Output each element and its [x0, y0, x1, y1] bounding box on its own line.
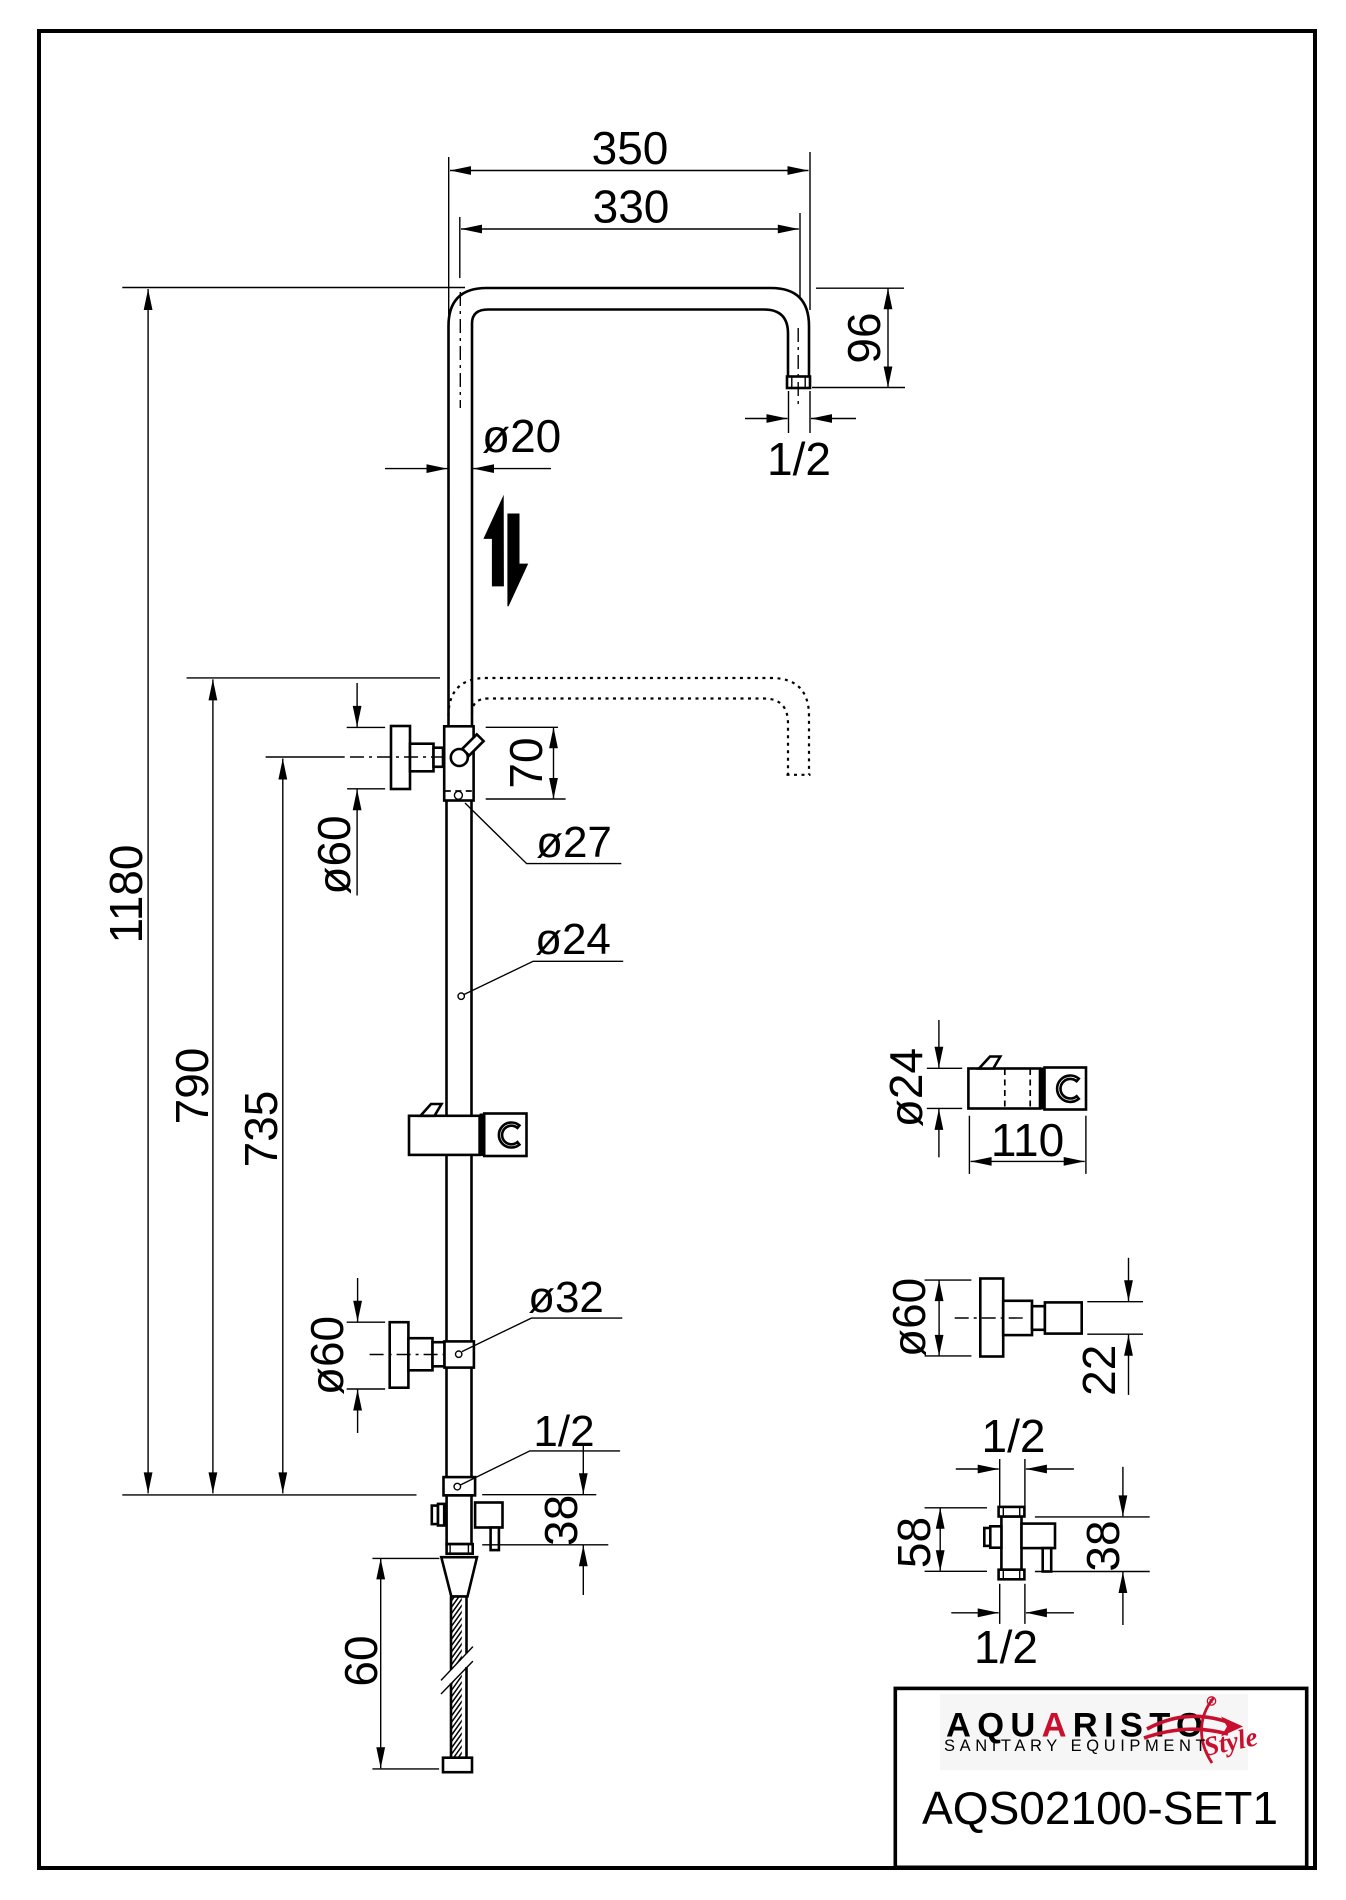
diverter body	[444, 726, 473, 800]
logo red arrowhead	[1221, 1717, 1243, 1737]
detail: bracket neck	[1032, 1306, 1045, 1330]
dimension 350	[449, 122, 810, 315]
bottom outlet elbow spout	[491, 1528, 499, 1551]
slider holder divider bar	[480, 1114, 485, 1157]
detail: holder clamp tab	[979, 1057, 1000, 1069]
label o32 leader	[462, 1273, 622, 1352]
slider holder clamp tab	[421, 1104, 442, 1116]
detail dimension 1/2 bottom	[951, 1584, 1074, 1673]
bottom outlet nipple	[447, 1544, 473, 1554]
detail: elbow body	[999, 1507, 1025, 1579]
label o27 leader	[465, 803, 621, 867]
detail: holder divider bar	[1040, 1068, 1045, 1110]
slider holder C-cup	[499, 1123, 520, 1148]
riser pipe centerline (dash-dot)	[459, 292, 461, 408]
shower arm solid outline (top, ~350 wide)	[449, 288, 810, 490]
svg-text:1/2: 1/2	[974, 1621, 1038, 1673]
svg-text:ø60: ø60	[883, 1278, 935, 1357]
svg-text:AQS02100-SET1: AQS02100-SET1	[922, 1782, 1278, 1834]
svg-text:1/2: 1/2	[533, 1407, 594, 1456]
label o24 leader	[458, 915, 623, 999]
detail: bracket wall cylinder	[1045, 1302, 1082, 1333]
detail: elbow spout	[1043, 1548, 1052, 1571]
detail dimension 22	[1073, 1258, 1143, 1396]
svg-text:735: 735	[235, 1091, 287, 1168]
svg-text:ø20: ø20	[482, 410, 561, 462]
svg-text:60: 60	[335, 1635, 387, 1686]
svg-text:ø24: ø24	[880, 1048, 932, 1127]
dimension 1/2 (arm end)	[745, 391, 856, 485]
riser pipe upper section (o20)	[449, 490, 473, 726]
detail: holder body	[968, 1069, 1040, 1109]
lower bracket pivot circle	[456, 1351, 462, 1357]
svg-text:790: 790	[166, 1048, 218, 1125]
svg-text:R: R	[1209, 1699, 1214, 1706]
logo scan backing	[940, 1694, 1248, 1770]
lower bracket centerline	[370, 1354, 445, 1356]
riser pipe lower section (o24)	[447, 801, 472, 1478]
svg-text:58: 58	[888, 1517, 940, 1568]
hose cone connector	[441, 1557, 477, 1596]
svg-text:ø60: ø60	[308, 815, 360, 894]
svg-text:96: 96	[838, 312, 890, 363]
svg-text:1/2: 1/2	[767, 433, 831, 485]
detail: bracket knob	[980, 1279, 1003, 1357]
dimension 38 (main view)	[482, 1445, 608, 1595]
detail dimension 110	[969, 1114, 1086, 1174]
detail dimension 58	[888, 1508, 987, 1572]
lower bracket clamp block	[445, 1341, 474, 1367]
dimension o60 (upper bracket)	[308, 683, 385, 896]
detail dimension 1/2 top	[956, 1410, 1074, 1506]
arm end centerline (dash-dot)	[797, 328, 799, 406]
dimension o60 (lower bracket)	[301, 1278, 385, 1433]
dimension 96	[812, 288, 905, 387]
svg-text:1180: 1180	[100, 845, 152, 944]
slider holder body	[409, 1116, 480, 1155]
bottom outlet right elbow	[475, 1503, 502, 1528]
svg-text:ø24: ø24	[535, 915, 611, 964]
slider holder cup housing	[484, 1114, 526, 1157]
hose end fitting	[443, 1758, 472, 1773]
logo box	[895, 1688, 1306, 1867]
lower wall bracket stem	[408, 1338, 432, 1370]
svg-text:350: 350	[592, 122, 669, 174]
lower wall bracket collar	[433, 1342, 445, 1366]
svg-text:1/2: 1/2	[982, 1410, 1046, 1462]
bottom outlet body	[447, 1495, 472, 1544]
svg-text:330: 330	[593, 181, 670, 233]
logo red swoosh waves	[1144, 1716, 1233, 1738]
dimension 735	[235, 759, 287, 1494]
logo registered mark	[1207, 1697, 1215, 1706]
svg-text:70: 70	[500, 737, 552, 788]
upper wall bracket collar	[434, 748, 444, 767]
upper wall bracket stem	[410, 744, 434, 772]
detail dimension 38	[1035, 1467, 1150, 1625]
diverter handle pivot	[451, 749, 468, 766]
dimension 60 (hose)	[335, 1558, 439, 1769]
svg-text:38: 38	[535, 1495, 587, 1546]
upper wall bracket knob	[391, 726, 410, 789]
svg-text:ø60: ø60	[301, 1316, 353, 1395]
dimension 330	[460, 181, 800, 299]
detail: holder C-cup	[1057, 1076, 1079, 1102]
detail: holder dashed joints	[1005, 1069, 1030, 1108]
dimension 70	[486, 727, 566, 799]
arm end 1/2 threaded connector	[787, 377, 810, 389]
shower arm phantom outline (lowered position, dotted)	[449, 678, 811, 775]
dimension 1180	[100, 288, 465, 1495]
dimension o20	[385, 410, 561, 469]
bottom outlet left nub	[432, 1504, 444, 1526]
diverter handle lever	[462, 734, 483, 755]
detail: bracket stem	[1003, 1301, 1032, 1335]
svg-text:SANITARY EQUIPMENT: SANITARY EQUIPMENT	[944, 1737, 1210, 1755]
upper bracket centerline	[266, 756, 446, 758]
detail: elbow left nub	[984, 1526, 1001, 1547]
label 1/2 leader (bottom coupling)	[461, 1407, 620, 1485]
dimension 790	[166, 678, 440, 1494]
svg-text:ø32: ø32	[528, 1273, 604, 1322]
detail dimension o24	[880, 1020, 962, 1157]
svg-text:ø27: ø27	[536, 818, 612, 867]
detail dimension o60	[883, 1278, 971, 1357]
logo red bow curve	[1201, 1698, 1213, 1763]
detail: elbow outlet	[1022, 1524, 1056, 1549]
svg-text:22: 22	[1073, 1345, 1125, 1396]
lower wall bracket knob	[390, 1322, 409, 1388]
bottom coupling ring (1/2)	[444, 1477, 476, 1495]
height adjust up/down symbol	[483, 495, 528, 607]
detail: bracket centerline	[955, 1317, 1025, 1319]
svg-text:110: 110	[991, 1114, 1064, 1166]
detail: holder cup housing	[1045, 1068, 1087, 1110]
svg-text:38: 38	[1077, 1520, 1129, 1571]
diverter thread section (dashed, o27)	[445, 791, 473, 799]
